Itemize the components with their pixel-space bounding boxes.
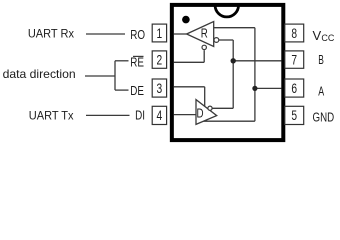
svg-text:RE: RE: [130, 56, 144, 70]
svg-text:R: R: [201, 28, 208, 42]
svg-text:A: A: [318, 85, 324, 99]
svg-text:RO: RO: [130, 29, 145, 43]
svg-text:4: 4: [157, 108, 163, 124]
svg-text:3: 3: [157, 80, 163, 96]
svg-text:data direction: data direction: [3, 67, 76, 81]
svg-text:CC: CC: [321, 33, 334, 43]
svg-text:GND: GND: [313, 111, 335, 125]
svg-text:2: 2: [157, 52, 163, 68]
svg-text:DE: DE: [130, 85, 144, 99]
svg-text:DI: DI: [135, 110, 145, 124]
svg-text:7: 7: [291, 52, 297, 68]
svg-text:6: 6: [291, 80, 297, 96]
svg-text:V: V: [313, 28, 322, 43]
svg-text:D: D: [196, 107, 203, 121]
svg-text:8: 8: [291, 25, 297, 41]
svg-text:5: 5: [291, 108, 297, 124]
svg-text:UART Tx: UART Tx: [29, 110, 74, 122]
svg-text:B: B: [318, 53, 324, 67]
svg-text:1: 1: [157, 25, 163, 41]
svg-text:UART Rx: UART Rx: [28, 28, 74, 40]
